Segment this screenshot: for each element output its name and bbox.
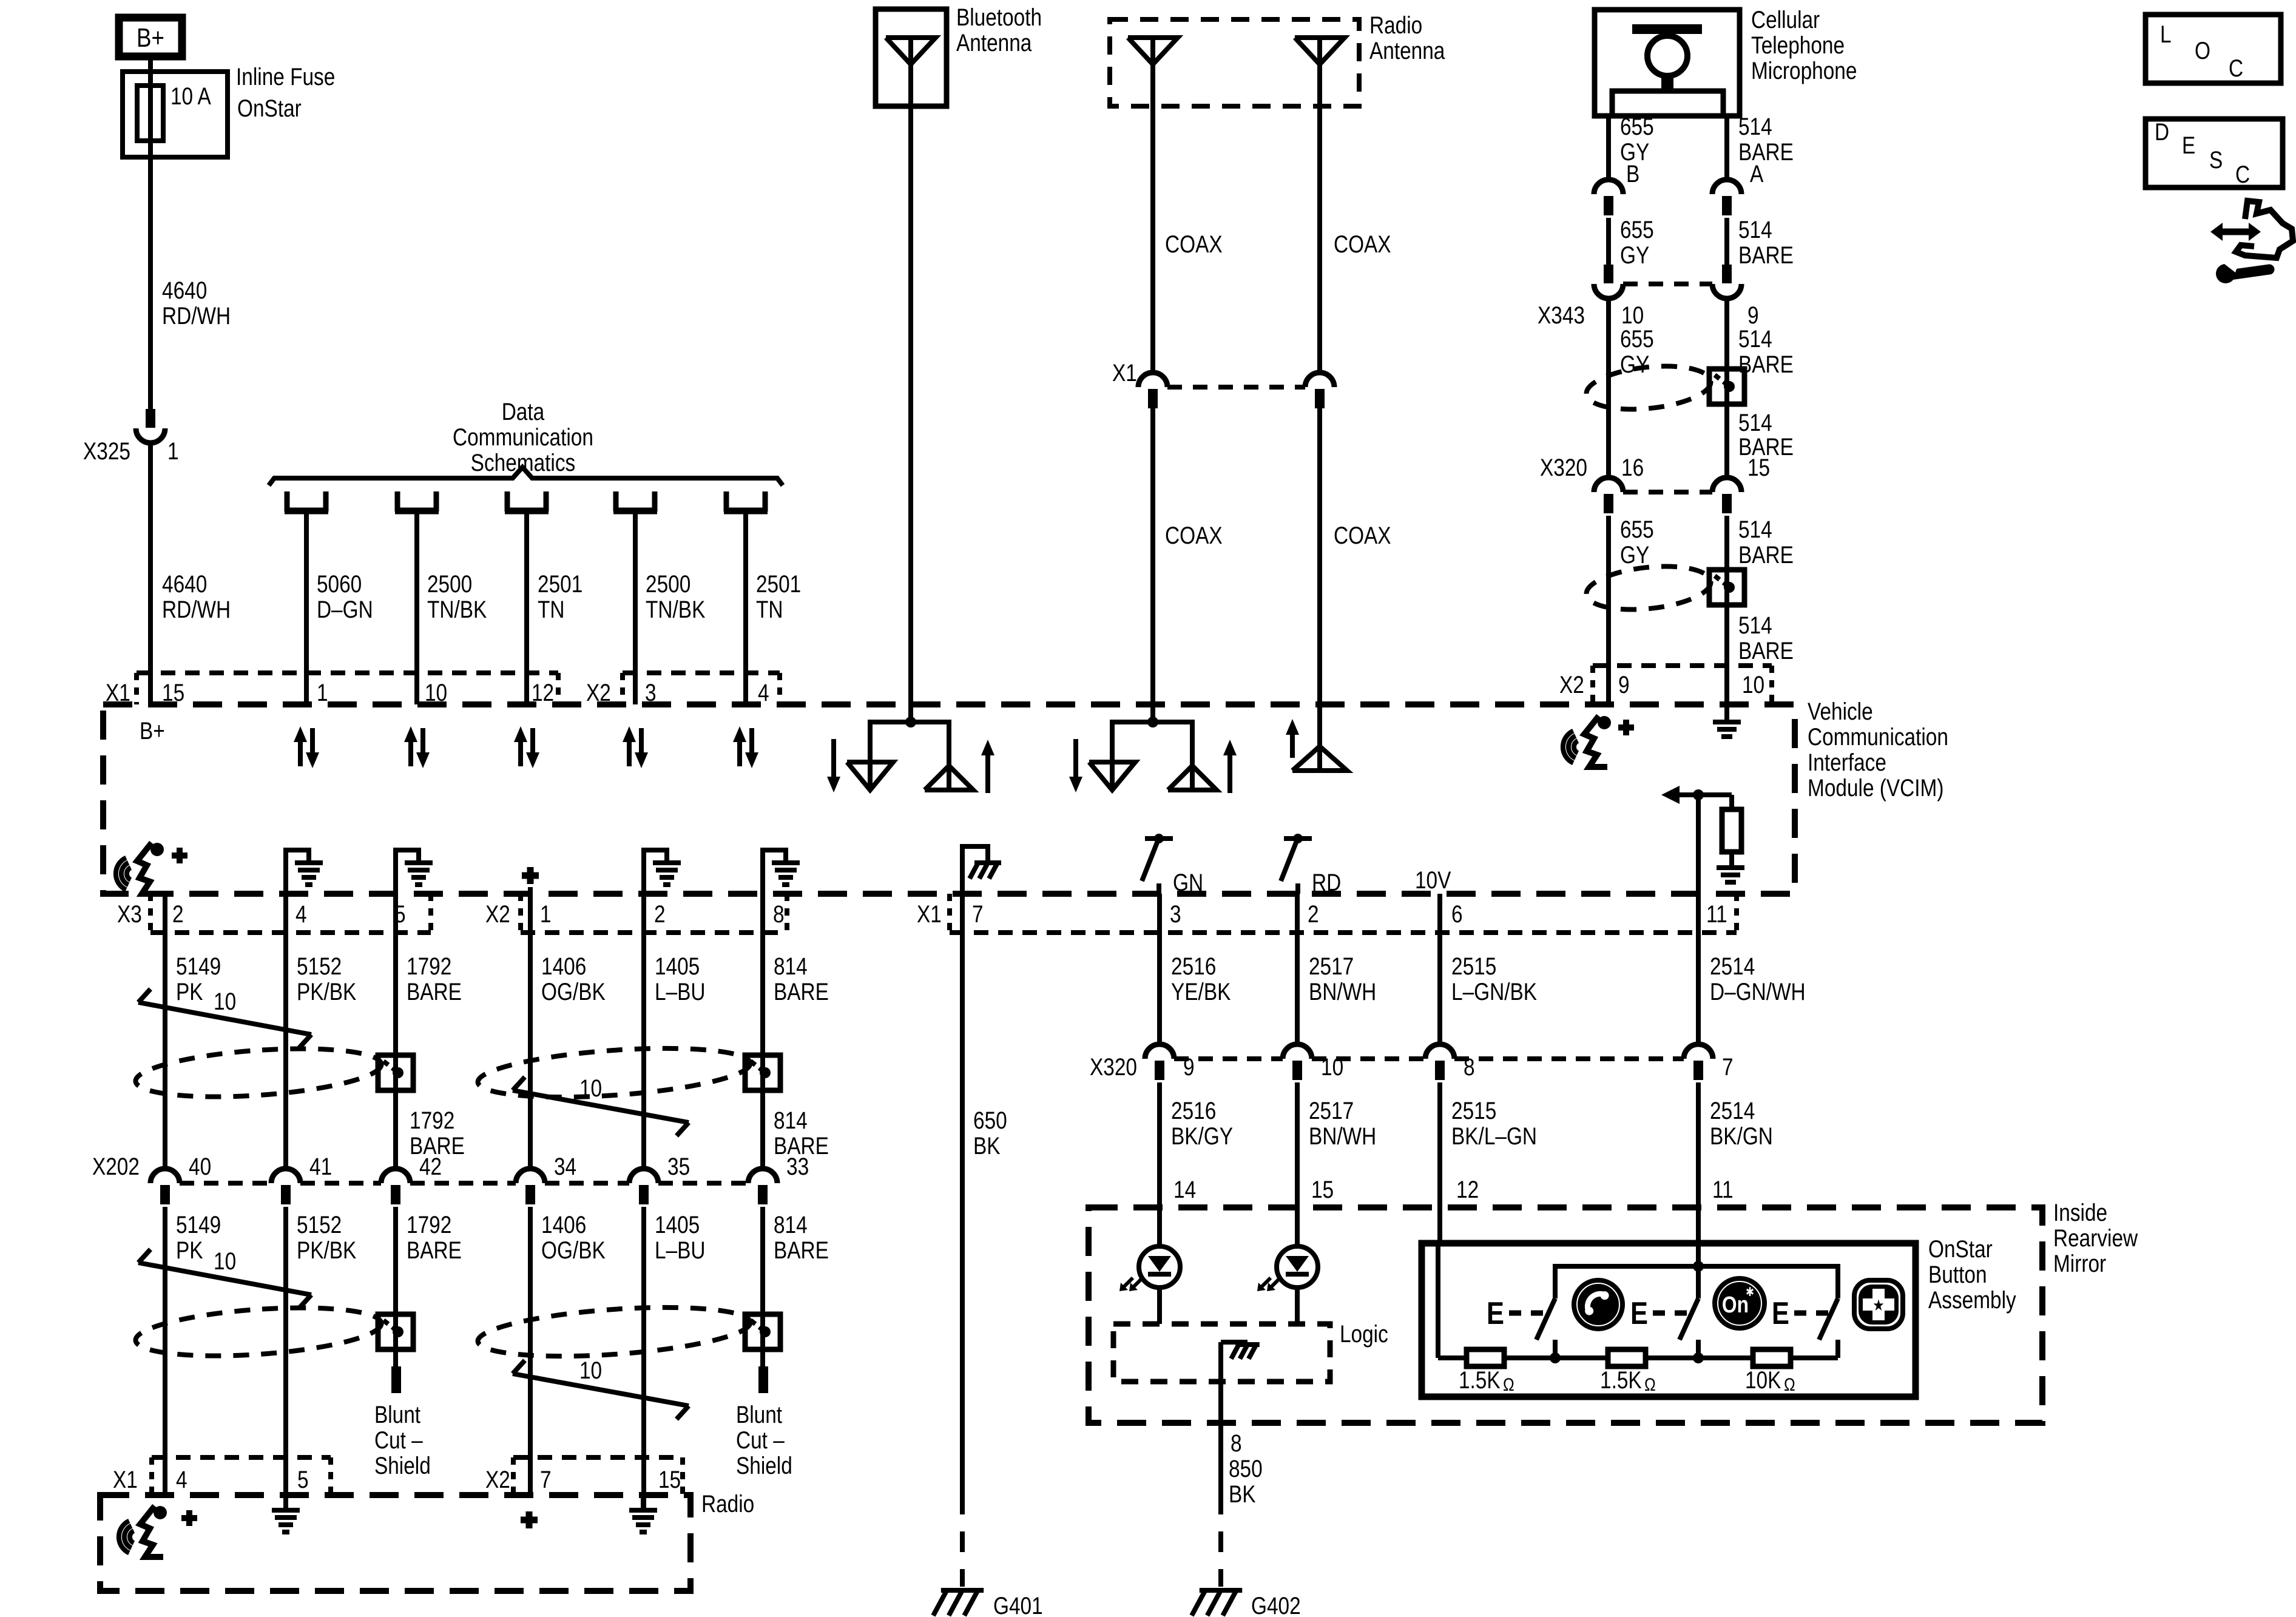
svg-text:2516: 2516 <box>1171 953 1216 980</box>
wire radio coax 2 lower <box>1317 408 1322 746</box>
svg-text:9: 9 <box>1747 302 1759 329</box>
svg-text:2500: 2500 <box>646 570 690 598</box>
node dot wire11 bracket <box>1693 1261 1704 1272</box>
svg-text:G402: G402 <box>1251 1592 1301 1617</box>
svg-text:8: 8 <box>1231 1430 1242 1457</box>
svg-text:TN: TN <box>756 596 783 623</box>
wire 814 lower <box>760 1207 765 1366</box>
svg-text:GY: GY <box>1620 541 1649 569</box>
svg-text:1: 1 <box>540 900 552 928</box>
wire 514 BARE seg4 <box>1724 516 1729 704</box>
svg-text:655: 655 <box>1620 216 1654 243</box>
svg-text:Microphone: Microphone <box>1751 57 1857 84</box>
resistor 1.5K b <box>1608 1349 1646 1366</box>
svg-text:BK/L–GN: BK/L–GN <box>1451 1122 1537 1150</box>
wire 650 BK dashed <box>960 1531 965 1587</box>
bluetooth rx antenna <box>925 766 973 790</box>
svg-text:X320: X320 <box>1540 454 1587 481</box>
off-page door symbol 4 <box>613 491 619 511</box>
svg-text:YE/BK: YE/BK <box>1171 978 1231 1005</box>
wire 2514 lower <box>1696 1082 1701 1207</box>
power feed B+ box <box>119 18 182 56</box>
off-page door symbol 3 <box>505 491 510 511</box>
svg-text:OnStar: OnStar <box>1928 1235 1993 1263</box>
svg-text:Inside: Inside <box>2053 1199 2107 1226</box>
svg-text:Rearview: Rearview <box>2053 1224 2138 1252</box>
svg-text:Cellular: Cellular <box>1751 6 1820 33</box>
svg-text:14: 14 <box>1173 1176 1196 1203</box>
svg-text:Cut –: Cut – <box>736 1426 785 1454</box>
coax X1 tie line <box>1167 385 1305 390</box>
svg-text:B: B <box>1626 160 1639 187</box>
wire 655 GY seg4 <box>1606 516 1611 666</box>
svg-text:✱: ✱ <box>1746 1285 1754 1299</box>
VCIM X2 right pin strip <box>1593 663 1772 668</box>
svg-text:L: L <box>2160 21 2172 48</box>
svg-text:Ω: Ω <box>1784 1374 1795 1395</box>
wire 2515 upper <box>1437 894 1442 1044</box>
onstar button assembly box <box>1422 1243 1916 1397</box>
wire r3-end <box>1791 1355 1838 1360</box>
radio X1 strip <box>152 1455 331 1460</box>
svg-text:E: E <box>1630 1296 1648 1331</box>
svg-text:10K: 10K <box>1745 1366 1781 1394</box>
wire B+ to fuse <box>148 60 153 409</box>
fuse element <box>137 86 163 141</box>
svg-text:10: 10 <box>579 1357 602 1384</box>
radio node dot <box>1147 717 1158 727</box>
on button <box>1715 1278 1764 1328</box>
E dashes 2 <box>1653 1311 1688 1316</box>
svg-text:11: 11 <box>1706 900 1727 928</box>
svg-text:8: 8 <box>773 900 785 928</box>
X1 pin strip bottom <box>947 894 952 933</box>
wire 4640 RD/WH lower <box>148 443 153 704</box>
ground G402 <box>1200 1588 1242 1593</box>
data arrows pin 1 <box>298 738 303 766</box>
radio antenna box <box>1110 19 1359 106</box>
svg-text:BARE: BARE <box>774 978 829 1005</box>
shield square 1792 lower <box>378 1314 413 1349</box>
svg-text:X1: X1 <box>917 900 942 928</box>
svg-text:Radio: Radio <box>1369 12 1422 39</box>
svg-text:X325: X325 <box>83 437 130 465</box>
svg-text:RD/WH: RD/WH <box>162 302 231 329</box>
svg-text:PK/BK: PK/BK <box>297 1237 357 1264</box>
svg-text:6: 6 <box>1451 900 1463 928</box>
resistor internal <box>1729 795 1734 809</box>
svg-text:Communication: Communication <box>453 424 593 451</box>
slash 10 upper left <box>138 1002 311 1035</box>
svg-text:1.5K: 1.5K <box>1459 1366 1501 1394</box>
svg-text:10: 10 <box>1742 671 1764 698</box>
svg-text:Module (VCIM): Module (VCIM) <box>1808 774 1943 802</box>
ground above X2-8 <box>763 850 786 894</box>
svg-text:2501: 2501 <box>538 570 582 598</box>
svg-text:E: E <box>2182 132 2195 159</box>
wire 655 GY seg2 <box>1606 218 1611 265</box>
svg-text:BARE: BARE <box>407 1237 462 1264</box>
svg-text:BARE: BARE <box>407 978 462 1005</box>
data wire 2 <box>414 514 419 704</box>
svg-text:PK/BK: PK/BK <box>297 978 357 1005</box>
svg-text:Ω: Ω <box>1644 1374 1656 1395</box>
bluetooth node dot <box>905 717 916 727</box>
connector X320 pin 8 <box>1425 1044 1454 1059</box>
svg-text:D: D <box>2155 118 2169 146</box>
wire 1792 upper <box>393 894 398 1169</box>
wire bluetooth coax <box>908 64 913 722</box>
svg-text:1406: 1406 <box>541 1211 586 1238</box>
svg-text:Cut –: Cut – <box>374 1426 423 1454</box>
svg-text:X320: X320 <box>1090 1053 1137 1081</box>
node dot 2514 <box>1693 789 1704 800</box>
bluetooth up arrow <box>985 752 990 793</box>
off-page door symbol 5 <box>724 491 729 511</box>
svg-text:15: 15 <box>658 1466 681 1493</box>
svg-text:655: 655 <box>1620 113 1654 140</box>
VCIM module box <box>103 704 1795 894</box>
X3 pin strip <box>148 894 153 933</box>
radio box <box>100 1495 690 1591</box>
svg-text:2514: 2514 <box>1710 953 1755 980</box>
X202 tie line <box>180 1181 271 1186</box>
svg-text:B+: B+ <box>140 717 165 744</box>
connector mic A <box>1712 180 1741 194</box>
twisted pair mid lower <box>476 1300 752 1363</box>
svg-text:BARE: BARE <box>1738 138 1794 166</box>
svg-text:D–GN/WH: D–GN/WH <box>1710 978 1806 1005</box>
blunt cut 814 <box>758 1366 768 1393</box>
svg-text:1792: 1792 <box>407 1211 451 1238</box>
resistor 10K <box>1753 1349 1791 1366</box>
svg-text:814: 814 <box>774 1107 808 1134</box>
svg-text:BARE: BARE <box>1738 241 1794 269</box>
svg-text:BN/WH: BN/WH <box>1309 1122 1376 1150</box>
svg-text:7: 7 <box>540 1466 552 1493</box>
data wire 5 <box>743 514 748 704</box>
svg-text:1406: 1406 <box>541 953 586 980</box>
svg-text:5152: 5152 <box>297 953 342 980</box>
radio rx antenna <box>1168 766 1217 790</box>
svg-text:2501: 2501 <box>756 570 801 598</box>
radio antenna symbol 2 <box>1295 38 1345 64</box>
svg-text:GY: GY <box>1620 241 1649 269</box>
svg-text:1.5K: 1.5K <box>1600 1366 1642 1394</box>
svg-text:S: S <box>2209 146 2223 174</box>
wire 5152 upper <box>283 894 288 1169</box>
ground above X3-5 <box>396 850 419 894</box>
DESC box <box>2146 119 2283 187</box>
svg-text:1: 1 <box>317 679 328 706</box>
twisted pair left upper <box>134 1042 383 1104</box>
svg-text:GY: GY <box>1620 351 1649 378</box>
plus above X2-1 <box>522 873 539 879</box>
svg-text:X202: X202 <box>92 1153 140 1180</box>
svg-text:4: 4 <box>295 900 307 928</box>
data arrows pin 3 <box>518 738 523 766</box>
connector X1 coax 1 <box>1138 373 1167 387</box>
svg-text:10: 10 <box>214 1247 236 1275</box>
connector X343 pin9 <box>1722 265 1732 283</box>
svg-text:★: ★ <box>1872 1297 1884 1314</box>
radio2 up arrow <box>1290 731 1295 758</box>
cell mic symbol <box>1632 24 1702 34</box>
svg-text:Telephone: Telephone <box>1751 32 1845 59</box>
ground above X2-2 <box>644 850 667 894</box>
connector X320 pin 9 <box>1145 1044 1174 1059</box>
shield square 814 lower <box>745 1314 780 1349</box>
svg-text:5149: 5149 <box>176 953 221 980</box>
svg-text:E: E <box>1772 1296 1789 1331</box>
svg-text:Communication: Communication <box>1808 723 1948 751</box>
svg-text:1405: 1405 <box>655 953 700 980</box>
inside rearview mirror box <box>1089 1207 2042 1423</box>
switch RD <box>1284 836 1312 841</box>
svg-text:4640: 4640 <box>162 277 207 304</box>
svg-text:Ω: Ω <box>1503 1374 1514 1395</box>
brace data communication <box>269 467 783 485</box>
svg-text:OG/BK: OG/BK <box>541 978 606 1005</box>
svg-text:X2: X2 <box>1559 671 1584 698</box>
connector X343 pin10 <box>1604 265 1613 283</box>
connector mic B <box>1594 180 1623 194</box>
chassis ground above X1-7 <box>962 846 988 894</box>
svg-text:Radio: Radio <box>701 1490 754 1517</box>
data arrows pin 2 <box>408 738 413 766</box>
X320 mid tie <box>1174 1056 1283 1061</box>
radio branch <box>1112 722 1192 766</box>
ground below resistor <box>1717 865 1744 870</box>
svg-text:COAX: COAX <box>1165 231 1223 258</box>
twisted pair mid upper <box>476 1041 752 1104</box>
svg-text:2: 2 <box>172 900 184 928</box>
svg-text:35: 35 <box>667 1153 690 1180</box>
connector X202 pin 35 <box>629 1169 658 1183</box>
arrow into VCIM <box>1661 786 1680 804</box>
wire 1405 lower <box>641 1207 646 1510</box>
svg-text:3: 3 <box>1170 900 1181 928</box>
svg-text:E: E <box>1487 1296 1504 1331</box>
radio X2 strip <box>513 1455 683 1460</box>
svg-text:514: 514 <box>1738 612 1772 639</box>
LED indicator 2 <box>1277 1246 1318 1288</box>
svg-text:40: 40 <box>189 1153 211 1180</box>
svg-text:Button: Button <box>1928 1261 1987 1288</box>
connector X325 <box>146 409 155 428</box>
radio up arrow <box>1227 752 1232 793</box>
svg-text:5060: 5060 <box>317 570 362 598</box>
connector X202 pin 40 <box>150 1169 180 1183</box>
wire LED1 to logic <box>1157 1288 1162 1324</box>
X2b pin strip <box>518 894 523 933</box>
E dashes 1 <box>1509 1311 1544 1316</box>
wire r2-r3 <box>1646 1355 1753 1360</box>
svg-text:514: 514 <box>1738 325 1772 353</box>
svg-text:7: 7 <box>972 900 984 928</box>
svg-text:9: 9 <box>1618 671 1630 698</box>
wire radio coax 2 upper <box>1317 64 1322 373</box>
wire 2516 upper <box>1157 894 1162 1044</box>
wire radio coax 1 lower <box>1150 408 1155 722</box>
svg-text:D–GN: D–GN <box>317 596 373 623</box>
svg-text:10 A: 10 A <box>171 83 211 110</box>
radio down arrow <box>1073 739 1078 780</box>
switch on <box>1696 1266 1701 1298</box>
svg-text:11: 11 <box>1712 1176 1734 1203</box>
twisted pair mic <box>1584 360 1713 414</box>
svg-text:TN: TN <box>538 596 564 623</box>
svg-text:L–GN/BK: L–GN/BK <box>1451 978 1537 1005</box>
svg-text:1: 1 <box>167 437 179 465</box>
svg-text:514: 514 <box>1738 409 1772 436</box>
svg-text:Blunt: Blunt <box>374 1401 420 1428</box>
LOC box <box>2146 15 2281 83</box>
radio tx antenna <box>1089 762 1135 790</box>
svg-text:C: C <box>2235 161 2250 188</box>
wire r1-r2 <box>1504 1355 1608 1360</box>
svg-text:X343: X343 <box>1538 302 1585 329</box>
svg-text:514: 514 <box>1738 216 1772 243</box>
svg-text:L–BU: L–BU <box>655 978 706 1005</box>
wire 12 inside box <box>1436 1243 1440 1358</box>
svg-text:15: 15 <box>1311 1176 1334 1203</box>
svg-text:Shield: Shield <box>374 1452 431 1479</box>
svg-text:2: 2 <box>1308 900 1319 928</box>
inline fuse box <box>123 72 228 157</box>
svg-text:Schematics: Schematics <box>471 449 576 476</box>
radio plus pin7 <box>521 1517 538 1524</box>
node dot sw1 <box>1550 1352 1561 1363</box>
svg-text:BARE: BARE <box>774 1237 829 1264</box>
shield square 1792 upper <box>378 1055 413 1090</box>
svg-text:1792: 1792 <box>410 1107 454 1134</box>
svg-text:2517: 2517 <box>1309 953 1354 980</box>
svg-text:4640: 4640 <box>162 570 207 598</box>
svg-text:X1: X1 <box>113 1466 138 1493</box>
wire 655 GY seg1 <box>1606 116 1611 180</box>
svg-text:12: 12 <box>1456 1176 1479 1203</box>
wire 2515 lower <box>1437 1082 1442 1207</box>
bluetooth branch <box>870 722 949 766</box>
svg-text:PK: PK <box>176 1237 203 1264</box>
data wire 4 <box>633 514 638 704</box>
svg-text:COAX: COAX <box>1334 522 1391 549</box>
svg-text:2: 2 <box>654 900 666 928</box>
svg-text:OnStar: OnStar <box>237 95 302 122</box>
resistor row wire <box>1438 1355 1467 1360</box>
svg-text:7: 7 <box>1722 1053 1734 1081</box>
switch phone <box>1536 1298 1555 1340</box>
radio plus <box>181 1515 197 1521</box>
svg-text:BARE: BARE <box>1738 541 1794 569</box>
twisted pair left lower <box>134 1301 383 1363</box>
svg-text:4: 4 <box>176 1466 187 1493</box>
svg-text:X1: X1 <box>1112 359 1137 387</box>
LED indicator 1 <box>1139 1246 1180 1288</box>
switch cross <box>1819 1298 1838 1340</box>
svg-text:2500: 2500 <box>427 570 472 598</box>
svg-text:34: 34 <box>554 1153 576 1180</box>
svg-text:1405: 1405 <box>655 1211 700 1238</box>
svg-text:2516: 2516 <box>1171 1097 1216 1124</box>
connector X320 pin 10 <box>1283 1044 1312 1059</box>
wire 655 GY seg3 <box>1606 299 1611 478</box>
wire 514 BARE seg1 <box>1724 116 1729 180</box>
VCIM X1 pin strip top <box>137 670 558 675</box>
bluetooth down arrow <box>831 739 836 780</box>
svg-text:Logic: Logic <box>1340 1320 1388 1348</box>
VCIM X2 pin strip top <box>623 670 780 675</box>
wire 2517 upper <box>1295 894 1300 1044</box>
svg-text:2515: 2515 <box>1451 953 1496 980</box>
svg-text:Assembly: Assembly <box>1928 1286 2016 1314</box>
slash 10 lower mid <box>513 1374 689 1406</box>
svg-text:PK: PK <box>176 978 203 1005</box>
radio ground pin15 <box>641 1495 646 1510</box>
plus right <box>1618 724 1634 731</box>
svg-text:10V: 10V <box>1415 866 1451 894</box>
logic ground <box>1221 1340 1248 1345</box>
svg-text:COAX: COAX <box>1165 522 1223 549</box>
radio ground pin5 <box>283 1495 288 1510</box>
loc arrow icon <box>2221 229 2250 235</box>
logic box <box>1113 1324 1330 1382</box>
button bracket <box>1555 1266 1838 1298</box>
off-page door symbol 1 <box>285 491 290 511</box>
switch GN <box>1145 836 1173 841</box>
plus left <box>172 852 187 859</box>
svg-text:C: C <box>2229 55 2243 82</box>
svg-text:TN/BK: TN/BK <box>646 596 706 623</box>
bluetooth tx antenna <box>847 762 893 790</box>
bluetooth antenna box <box>876 9 947 106</box>
svg-text:1792: 1792 <box>407 953 451 980</box>
wire 850 BK upper <box>1218 1342 1223 1514</box>
svg-text:BK/GY: BK/GY <box>1171 1122 1233 1150</box>
svg-text:COAX: COAX <box>1334 231 1391 258</box>
svg-text:2514: 2514 <box>1710 1097 1755 1124</box>
wire 655 into VCIM <box>1606 666 1611 704</box>
wire 2516 lower <box>1157 1082 1162 1207</box>
connector X320 pin 7 <box>1684 1044 1713 1059</box>
svg-text:655: 655 <box>1620 516 1654 543</box>
radio mic icon <box>130 1531 133 1543</box>
wire 850 BK dashed <box>1218 1531 1223 1587</box>
data wire 3 <box>524 514 529 704</box>
svg-text:15: 15 <box>1747 454 1770 481</box>
connector X320 pin16 <box>1594 478 1623 492</box>
mic icon left <box>127 868 130 880</box>
connector X1 coax 2 <box>1305 373 1334 387</box>
connector X320 pin15 <box>1712 478 1741 492</box>
phone button <box>1574 1280 1622 1329</box>
svg-text:Antenna: Antenna <box>956 29 1032 56</box>
svg-text:655: 655 <box>1620 325 1654 353</box>
svg-text:GN: GN <box>1173 869 1203 896</box>
mic icon right <box>1574 741 1578 753</box>
connector X202 pin 33 <box>748 1169 777 1183</box>
svg-text:BN/WH: BN/WH <box>1309 978 1376 1005</box>
ground above X3-4 <box>286 850 309 894</box>
svg-text:Data: Data <box>502 398 545 425</box>
svg-text:X3: X3 <box>117 900 142 928</box>
E dashes 3 <box>1794 1311 1829 1316</box>
svg-text:B+: B+ <box>137 22 164 53</box>
svg-text:On: On <box>1722 1292 1749 1317</box>
wire 2517 lower <box>1295 1082 1300 1207</box>
wire LED2 to logic <box>1295 1288 1300 1324</box>
